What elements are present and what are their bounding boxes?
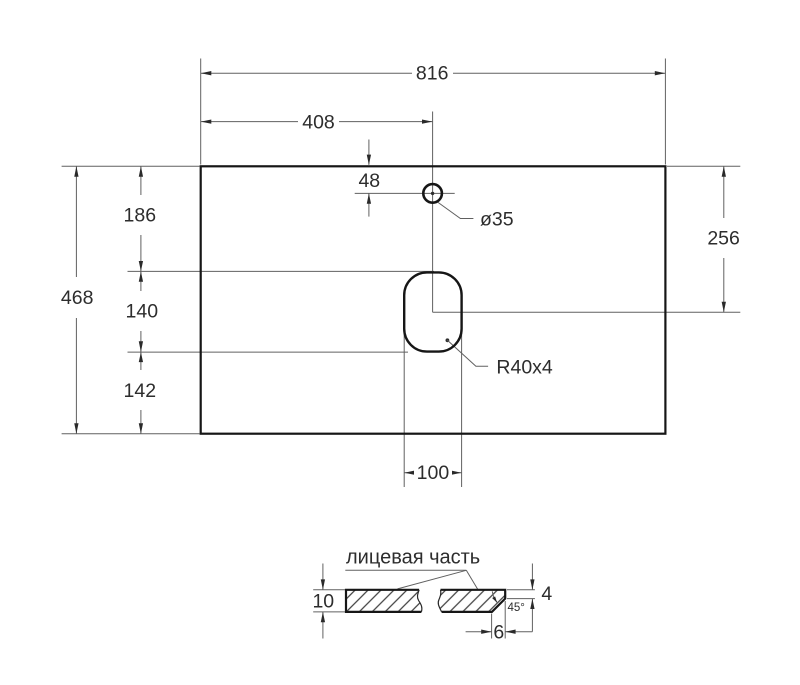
- svg-text:142: 142: [124, 380, 157, 402]
- svg-text:256: 256: [707, 228, 740, 250]
- svg-text:100: 100: [417, 462, 450, 484]
- svg-text:10: 10: [312, 591, 334, 613]
- svg-text:816: 816: [416, 63, 449, 85]
- svg-text:468: 468: [61, 287, 94, 309]
- svg-text:140: 140: [126, 301, 159, 323]
- svg-text:R40x4: R40x4: [496, 357, 553, 379]
- svg-text:4: 4: [541, 583, 552, 605]
- svg-text:ø35: ø35: [480, 209, 514, 231]
- svg-text:408: 408: [302, 111, 335, 133]
- svg-text:лицевая часть: лицевая часть: [346, 547, 480, 569]
- svg-text:186: 186: [124, 205, 157, 227]
- svg-text:48: 48: [358, 170, 380, 192]
- svg-text:6: 6: [493, 621, 504, 643]
- svg-text:45°: 45°: [508, 602, 525, 614]
